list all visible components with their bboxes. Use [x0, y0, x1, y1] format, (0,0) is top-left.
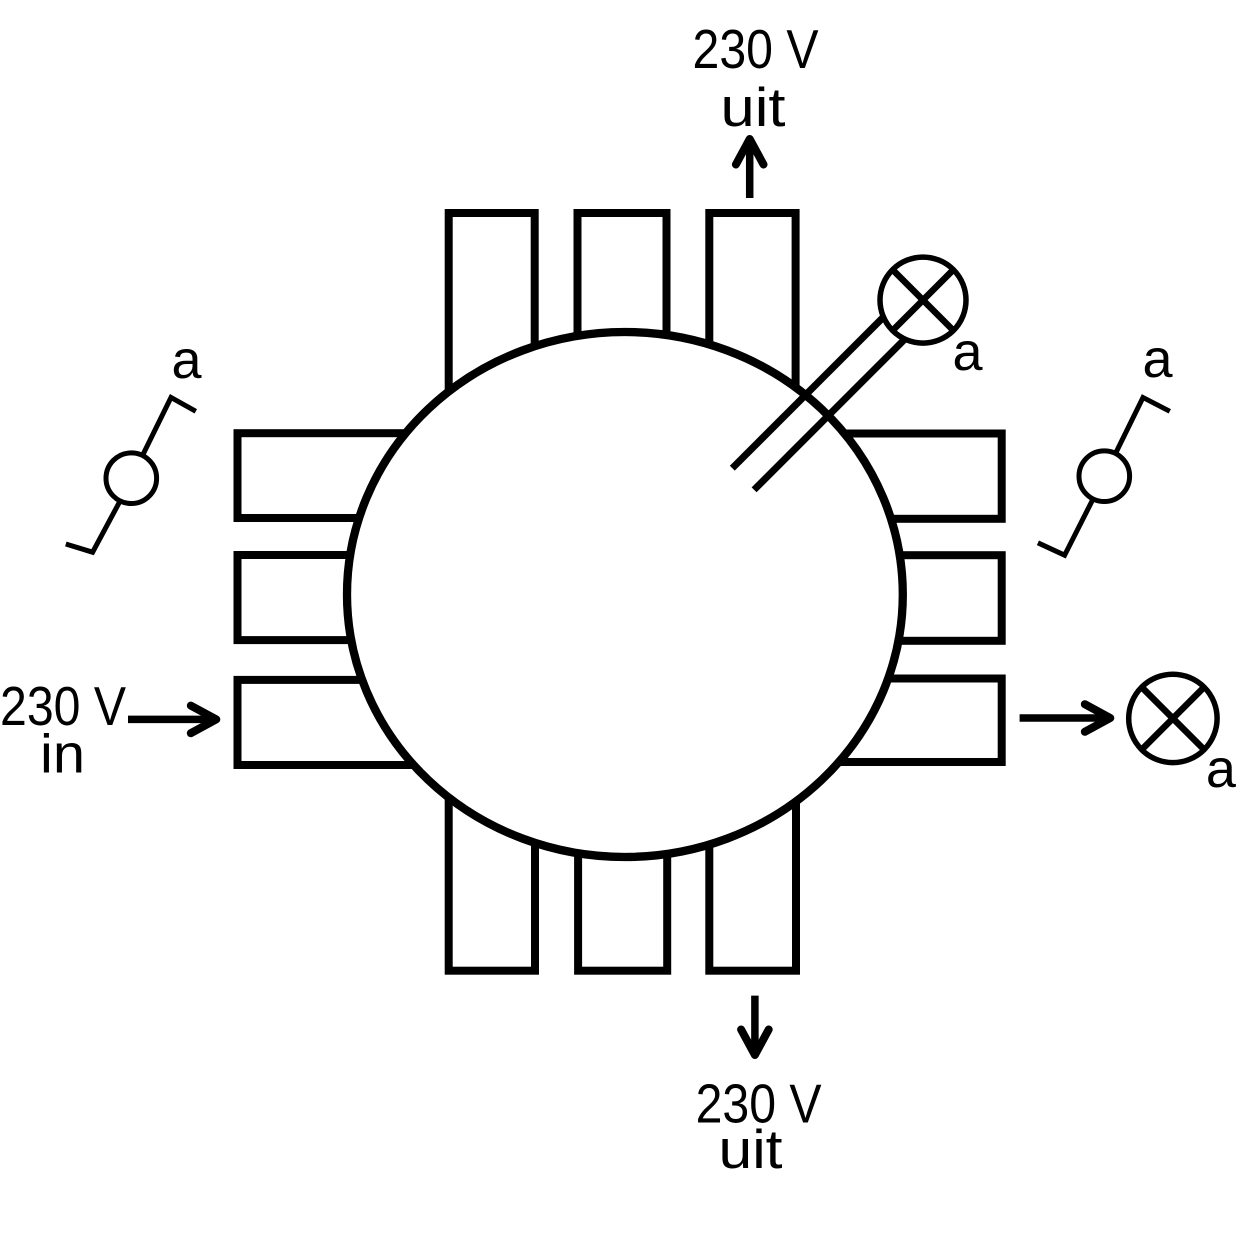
junction box circle — [347, 332, 903, 857]
switch right circle — [1079, 451, 1130, 502]
arrow down (230 V uit, bottom) shaft — [751, 996, 759, 1054]
lamp top-right X stroke 1 — [893, 270, 954, 331]
svg-text:in: in — [40, 722, 85, 784]
lamp top-right circle — [880, 257, 966, 343]
lamp right X stroke 1 — [1142, 687, 1205, 750]
arrow right (to lamp, right) shaft — [1020, 714, 1109, 722]
terminal right-middle — [820, 555, 1002, 641]
wire to lamp (double line, lower) — [754, 319, 925, 490]
terminal top-left — [449, 213, 535, 450]
terminal bottom-middle — [578, 760, 667, 971]
switch right upper lever — [1116, 398, 1170, 454]
terminal left-bottom — [238, 680, 431, 765]
arrow to lamp head — [1085, 704, 1111, 732]
svg-text:uit: uit — [719, 1118, 783, 1180]
terminal top-right — [709, 213, 795, 450]
svg-text:a: a — [1206, 739, 1237, 799]
terminal top-middle — [578, 213, 667, 430]
switch left lower lever — [66, 501, 120, 552]
terminal bottom-right — [709, 740, 796, 971]
arrow right head — [191, 706, 217, 734]
svg-text:a: a — [953, 322, 984, 382]
svg-text:a: a — [172, 330, 203, 390]
switch left upper lever — [143, 398, 196, 456]
terminal bottom-left — [449, 740, 535, 971]
lamp right circle — [1129, 674, 1217, 762]
svg-text:uit: uit — [721, 76, 786, 138]
arrow down head — [741, 1030, 769, 1056]
switch right lower lever — [1038, 499, 1093, 555]
terminal left-top — [238, 433, 431, 518]
lamp right X stroke 2 — [1142, 687, 1205, 750]
svg-text:230 V: 230 V — [693, 18, 819, 80]
lamp top-right X stroke 2 — [893, 270, 954, 331]
terminal left-middle — [238, 555, 431, 640]
arrow right (230 V in, left) shaft — [128, 716, 215, 724]
terminal right-bottom — [820, 679, 1002, 763]
terminal right-top — [820, 434, 1002, 519]
arrow up head — [736, 139, 764, 165]
svg-text:a: a — [1143, 329, 1174, 389]
wire to lamp (double line, upper) — [732, 296, 905, 469]
arrow up (230 V uit, top) shaft — [746, 140, 754, 198]
switch left circle — [106, 453, 157, 504]
